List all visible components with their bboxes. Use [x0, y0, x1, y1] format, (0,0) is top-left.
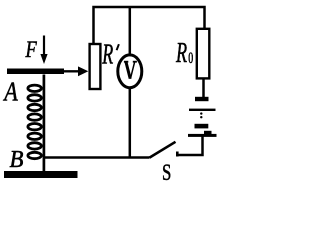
svg-text:F: F [25, 36, 37, 63]
svg-text:R: R [102, 39, 114, 70]
svg-text:S: S [162, 161, 171, 182]
svg-text:R: R [175, 38, 187, 69]
svg-text:A: A [2, 78, 18, 108]
svg-text:0: 0 [188, 49, 193, 67]
svg-text:B: B [10, 146, 24, 173]
